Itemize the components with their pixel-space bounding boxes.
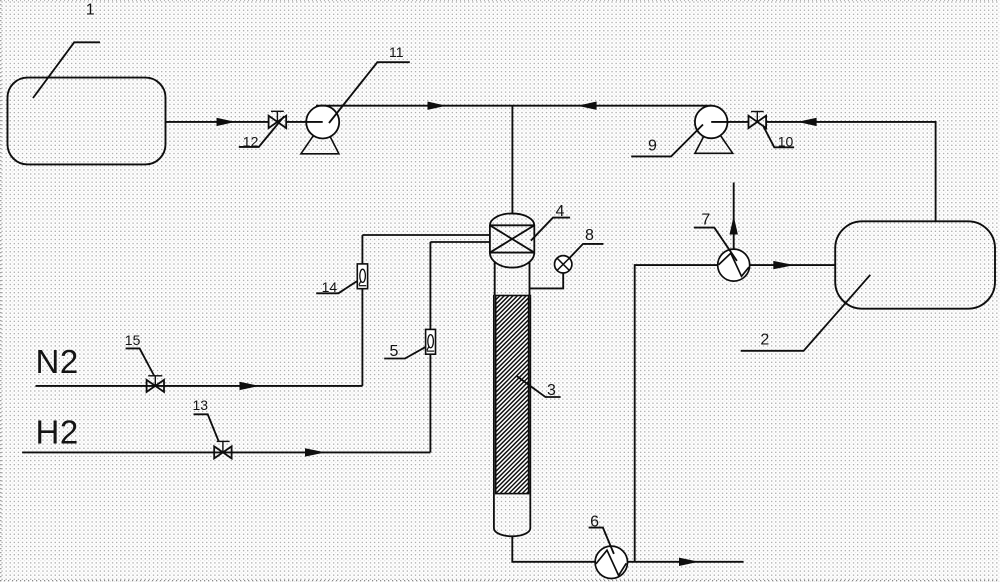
wire column bottom to HX6 [512, 536, 595, 562]
valve 10 [749, 112, 767, 129]
vessel 2 (product receiver) [835, 221, 995, 308]
arrow right product outlet [679, 558, 699, 566]
wire riser to HX7 [635, 265, 718, 562]
label 7 leader [694, 228, 737, 261]
rotameter 5 [426, 329, 436, 354]
arrow right on header [428, 102, 447, 110]
wire pump9 to valve10 [728, 121, 749, 123]
label 2 leader [741, 275, 871, 351]
wire top header (pump11 to pump9) [316, 105, 713, 107]
label 8 leader [570, 244, 604, 258]
page edge dotted border top [0, 0, 1000, 2]
H2 wire [22, 451, 430, 453]
svg-text:14: 14 [322, 279, 338, 295]
arrow left on recycle line [798, 118, 817, 126]
heat exchanger 6 [595, 546, 627, 578]
wire instrument8 to column neck [529, 273, 563, 289]
pump 9 [695, 106, 733, 154]
label 12 leader [239, 116, 284, 147]
rotameter 5 vertical wire lower [429, 354, 431, 452]
wire HX7 to vessel2 [750, 264, 836, 266]
label 3 leader [517, 376, 561, 397]
label 14 leader [316, 281, 357, 293]
label 6 leader [589, 528, 614, 554]
label 1 leader [33, 42, 100, 98]
rotameter 14 vertical wire lower [361, 289, 363, 386]
label 13 leader [194, 414, 219, 441]
valve 12 [269, 111, 287, 128]
arrow right on tank1 outlet [217, 118, 236, 126]
wire HX6 to product outlet [627, 561, 743, 563]
mixer 4 (column head) [490, 213, 534, 267]
label 5 leader [384, 347, 425, 359]
N2 wire [36, 385, 363, 387]
svg-text:7: 7 [701, 211, 710, 228]
svg-text:5: 5 [390, 343, 399, 360]
svg-text:8: 8 [585, 227, 594, 244]
page edge dotted border bottom [0, 580, 1000, 582]
arrow right on H2 [305, 448, 326, 456]
column 3 packing (hatched) [496, 296, 529, 494]
valve 13 [214, 441, 231, 458]
arrow right into vessel2 [773, 261, 794, 269]
wire tank1 to valve12 [166, 121, 269, 123]
arrow up on vent [730, 216, 738, 235]
tank 1 (feed tank) [8, 78, 166, 165]
column neck walls [494, 263, 496, 296]
svg-text:1: 1 [86, 2, 95, 19]
svg-text:4: 4 [556, 203, 565, 220]
heat exchanger 7 [718, 249, 750, 281]
wire rotameter14 top to mixer4 [362, 234, 490, 236]
wire header junction down to mixer 4 [511, 106, 513, 215]
label 15 leader [126, 348, 155, 376]
wire valve10 to vessel2 top [766, 122, 936, 221]
svg-text:10: 10 [778, 133, 794, 149]
svg-text:H2: H2 [36, 413, 79, 450]
svg-text:2: 2 [760, 332, 769, 349]
label 10 leader [764, 127, 795, 148]
svg-text:11: 11 [389, 44, 404, 60]
vent wire from HX7 [733, 183, 735, 250]
svg-text:15: 15 [125, 332, 141, 348]
arrow right on N2 [240, 382, 260, 390]
svg-text:6: 6 [590, 514, 599, 531]
wire rotameter5 top to mixer4 [430, 241, 490, 243]
column 3 outer shell [494, 295, 530, 536]
label 11 leader [329, 62, 410, 123]
wire valve12 to pump11 [286, 121, 323, 123]
rotameter 5 vertical wire upper [429, 242, 431, 329]
arrow left on header [578, 102, 597, 110]
rotameter 14 [357, 264, 367, 289]
label 4 leader [531, 218, 570, 241]
svg-text:12: 12 [243, 133, 259, 149]
valve 15 [147, 376, 164, 392]
rotameter 14 vertical wire upper [361, 235, 363, 264]
svg-text:13: 13 [193, 397, 209, 413]
svg-text:9: 9 [648, 137, 657, 154]
instrument 8 (circle-X) [555, 256, 572, 273]
pump 11 [301, 106, 339, 154]
page edge dotted border left [0, 0, 2, 582]
label 9 leader [631, 125, 703, 157]
svg-text:N2: N2 [36, 343, 79, 380]
svg-text:3: 3 [547, 382, 556, 399]
